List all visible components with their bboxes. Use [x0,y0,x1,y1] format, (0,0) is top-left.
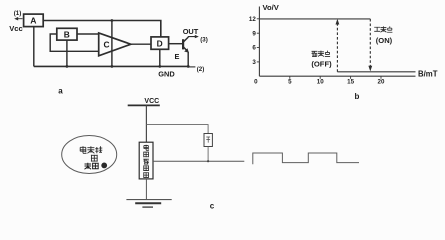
wire D to bottom rail [159,49,161,66]
wire VCC branch to resistor [146,125,208,134]
svg-text:D: D [157,38,163,48]
square wave output [253,153,359,164]
svg-text:9: 9 [252,30,256,37]
svg-text:(2): (2) [197,66,205,73]
chart x-axis [259,75,415,77]
svg-text:GND: GND [158,70,175,79]
y-axis ticks 3 6 9 12 [249,16,259,66]
svg-text:c: c [210,202,215,211]
release point dashed line [336,24,338,72]
wire A to bottom rail [33,27,35,67]
block D [151,37,169,49]
svg-text:VCC: VCC [144,98,159,105]
svg-text:3: 3 [252,59,256,66]
block B [57,28,77,40]
svg-text:20: 20 [378,78,385,85]
wire sensor to ground [145,179,147,200]
bubble text line 3 [85,163,92,170]
svg-text:12: 12 [249,16,256,23]
svg-text:A: A [30,16,36,26]
op-amp C [99,33,131,56]
svg-text:(3): (3) [200,36,208,43]
hall sensor vertical text [144,145,149,151]
wire VCC to sensor [145,105,147,142]
output junction dot [207,160,209,162]
junction dots [66,19,190,68]
svg-text:Vo/V: Vo/V [263,3,280,12]
pin 2 stub [188,66,195,68]
wire D to base [169,43,184,45]
svg-text:B/mT: B/mT [418,70,438,79]
wire bias vertical [111,21,113,67]
svg-text:(1): (1) [14,10,22,17]
svg-text:5: 5 [288,78,292,85]
wire top rail [43,21,161,37]
svg-text:b: b [355,92,360,101]
operate point label [374,27,380,31]
wire C to D [131,43,151,45]
svg-text:Vcc: Vcc [9,24,23,33]
svg-text:(ON): (ON) [376,36,393,45]
hall sensor box [139,142,153,179]
svg-text:E: E [175,52,180,61]
transistor E [182,39,184,49]
wire bottom rail [34,65,188,67]
svg-text:15: 15 [347,78,354,85]
svg-text:10: 10 [317,78,324,85]
wire B to bottom rail [66,40,68,66]
svg-text:OUT: OUT [183,27,199,36]
wire B to C [77,33,99,35]
VCC rail [128,104,160,106]
bubble text line 2 [91,155,98,162]
svg-text:B: B [64,29,70,39]
wire B feedback loop [50,34,98,51]
x-axis ticks 0 5 10 15 20 [254,76,385,85]
ground [126,199,171,201]
release point label [312,51,318,56]
bubble text line 1 [80,146,86,153]
wire resistor to output [207,147,209,162]
high output level line [259,18,370,20]
svg-text:a: a [58,87,63,96]
block A [24,14,44,27]
pin 1 arrow [16,18,22,20]
resistor R [204,134,212,147]
chart y-axis [258,7,260,77]
svg-text:C: C [103,40,109,50]
output wire [153,160,244,162]
svg-text:6: 6 [252,45,256,52]
svg-text:(OFF): (OFF) [311,59,332,68]
low output level line [337,71,415,73]
svg-text:0: 0 [254,78,258,85]
operate point dashed line [369,19,371,67]
meter disc magnet bubble [62,136,117,174]
